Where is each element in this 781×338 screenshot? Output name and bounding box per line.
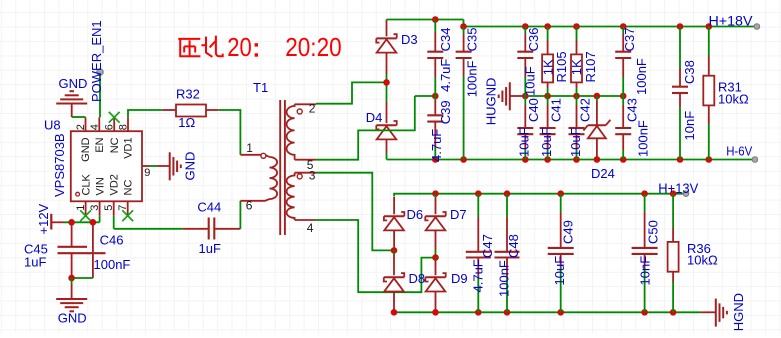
svg-text:C41: C41 bbox=[549, 98, 564, 122]
svg-text:D8: D8 bbox=[409, 271, 426, 286]
svg-text:C48: C48 bbox=[506, 234, 521, 258]
svg-text:VD1: VD1 bbox=[123, 137, 135, 158]
svg-text:D9: D9 bbox=[451, 271, 468, 286]
svg-text:6: 6 bbox=[104, 124, 116, 130]
svg-text:T1: T1 bbox=[253, 80, 268, 95]
svg-text:5: 5 bbox=[103, 205, 115, 211]
svg-text:10uF: 10uF bbox=[523, 66, 538, 96]
svg-text:6: 6 bbox=[246, 199, 253, 213]
svg-text:C46: C46 bbox=[100, 233, 124, 248]
svg-text:C42: C42 bbox=[578, 98, 593, 122]
svg-text:2: 2 bbox=[309, 102, 316, 116]
svg-text:1: 1 bbox=[246, 141, 253, 155]
svg-text:U8: U8 bbox=[44, 118, 61, 133]
svg-text:R107: R107 bbox=[583, 51, 598, 82]
svg-text:4.7uF: 4.7uF bbox=[471, 259, 486, 292]
svg-text:NC: NC bbox=[109, 137, 121, 153]
svg-text:D3: D3 bbox=[401, 32, 418, 47]
svg-text:D7: D7 bbox=[450, 207, 467, 222]
svg-text:9: 9 bbox=[144, 167, 150, 179]
svg-text:GND: GND bbox=[58, 310, 87, 325]
svg-text:1K: 1K bbox=[569, 59, 584, 75]
svg-text:100nF: 100nF bbox=[465, 60, 480, 97]
svg-text:GND: GND bbox=[80, 137, 92, 162]
svg-text:3: 3 bbox=[89, 205, 101, 211]
svg-text:CLK: CLK bbox=[80, 173, 92, 195]
svg-text:20:20: 20:20 bbox=[285, 32, 342, 62]
svg-text:C43: C43 bbox=[624, 98, 639, 122]
svg-text:100nF: 100nF bbox=[634, 58, 649, 95]
svg-text:C38: C38 bbox=[682, 60, 697, 84]
svg-text:10uF: 10uF bbox=[552, 256, 567, 286]
svg-text:4: 4 bbox=[89, 124, 101, 130]
svg-text:VIN: VIN bbox=[94, 177, 106, 195]
svg-text:4: 4 bbox=[307, 221, 314, 235]
svg-text:VPS8703B: VPS8703B bbox=[52, 133, 67, 197]
svg-text:H+13V: H+13V bbox=[658, 180, 699, 196]
svg-text:100nF: 100nF bbox=[496, 260, 511, 297]
svg-text:C36: C36 bbox=[526, 28, 541, 52]
svg-text:H+18V: H+18V bbox=[709, 13, 754, 29]
svg-text:C47: C47 bbox=[480, 234, 495, 258]
svg-text:C35: C35 bbox=[465, 28, 480, 52]
svg-text:10nF: 10nF bbox=[682, 111, 697, 141]
svg-text:1uF: 1uF bbox=[199, 241, 221, 256]
svg-text:C40: C40 bbox=[526, 98, 541, 122]
svg-text:4.7uF: 4.7uF bbox=[438, 59, 453, 92]
svg-text:H-6V: H-6V bbox=[726, 143, 752, 158]
svg-text:HUGND: HUGND bbox=[484, 78, 499, 126]
svg-text:20: 20 bbox=[227, 32, 252, 62]
svg-text:+12V: +12V bbox=[36, 203, 51, 234]
svg-text:10uF: 10uF bbox=[517, 127, 532, 157]
svg-text:1uF: 1uF bbox=[24, 255, 46, 270]
svg-text:GND: GND bbox=[59, 76, 88, 91]
svg-text:GND: GND bbox=[183, 152, 198, 181]
svg-text:10kΩ: 10kΩ bbox=[718, 92, 749, 107]
svg-text:10uF: 10uF bbox=[568, 127, 583, 157]
svg-text:10kΩ: 10kΩ bbox=[687, 253, 718, 268]
svg-text:D4: D4 bbox=[366, 110, 383, 125]
svg-text:C50: C50 bbox=[645, 220, 660, 244]
svg-text:POWER_EN1: POWER_EN1 bbox=[89, 20, 104, 102]
svg-text:R105: R105 bbox=[554, 51, 569, 82]
svg-text:D24: D24 bbox=[591, 166, 615, 181]
svg-text:VD2: VD2 bbox=[108, 174, 120, 195]
svg-text:100nF: 100nF bbox=[94, 257, 131, 272]
svg-text:4.7uF: 4.7uF bbox=[429, 129, 444, 162]
svg-text:EN: EN bbox=[94, 137, 106, 152]
svg-text:1Ω: 1Ω bbox=[178, 115, 195, 130]
svg-text:100nF: 100nF bbox=[635, 120, 650, 157]
svg-text:10nF: 10nF bbox=[638, 256, 653, 286]
svg-text:C49: C49 bbox=[560, 220, 575, 244]
svg-text:NC: NC bbox=[122, 180, 134, 196]
svg-text:2: 2 bbox=[75, 124, 87, 130]
svg-text:7: 7 bbox=[117, 205, 129, 211]
svg-text:1: 1 bbox=[75, 205, 87, 211]
svg-text:3: 3 bbox=[309, 169, 316, 183]
svg-text:C39: C39 bbox=[438, 100, 453, 124]
svg-text:D6: D6 bbox=[407, 207, 424, 222]
svg-text:HGND: HGND bbox=[731, 293, 746, 331]
svg-text:C37: C37 bbox=[622, 28, 637, 52]
svg-text:8: 8 bbox=[118, 124, 130, 130]
svg-text:R32: R32 bbox=[176, 87, 200, 102]
svg-text:C34: C34 bbox=[438, 28, 453, 52]
svg-text:10uF: 10uF bbox=[539, 127, 554, 157]
svg-text:C44: C44 bbox=[197, 200, 221, 215]
